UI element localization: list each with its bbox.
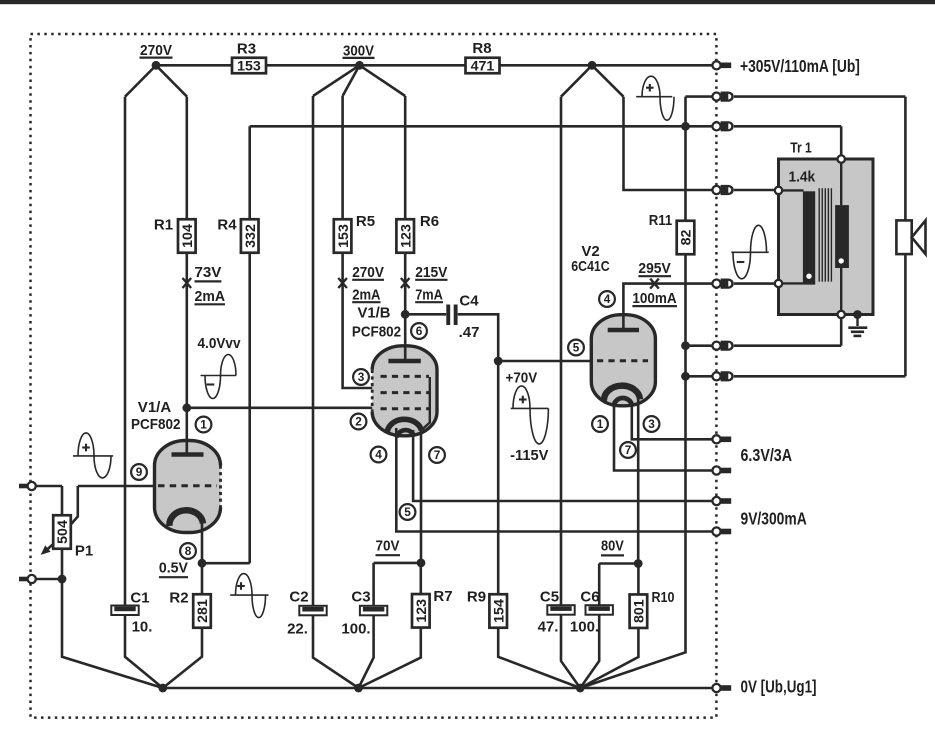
svg-text:2mA: 2mA xyxy=(352,287,380,304)
svg-text:2mA: 2mA xyxy=(195,288,226,305)
svg-text:V1/B: V1/B xyxy=(358,304,391,321)
svg-text:153: 153 xyxy=(336,224,352,248)
svg-text:100.: 100. xyxy=(341,621,370,638)
svg-text:C3: C3 xyxy=(351,589,370,606)
svg-text:10.: 10. xyxy=(132,619,153,636)
svg-text:123: 123 xyxy=(414,599,430,623)
svg-text:7: 7 xyxy=(625,443,632,457)
svg-text:100.: 100. xyxy=(570,619,599,636)
svg-text:7: 7 xyxy=(434,448,441,462)
svg-text:C2: C2 xyxy=(289,589,308,606)
svg-text:300V: 300V xyxy=(343,42,374,59)
svg-text:-115V: -115V xyxy=(510,447,548,464)
svg-text:4: 4 xyxy=(604,292,611,306)
svg-text:C4: C4 xyxy=(459,293,479,310)
svg-text:8: 8 xyxy=(185,544,192,558)
svg-text:Tr 1: Tr 1 xyxy=(790,139,812,156)
svg-text:295V: 295V xyxy=(638,260,670,277)
svg-text:7mA: 7mA xyxy=(415,287,443,304)
svg-text:C1: C1 xyxy=(130,590,149,607)
svg-text:47.: 47. xyxy=(538,619,559,636)
svg-text:PCF802: PCF802 xyxy=(131,416,181,433)
svg-text:154: 154 xyxy=(491,599,507,623)
svg-text:R11: R11 xyxy=(649,212,673,229)
svg-text:332: 332 xyxy=(243,224,259,248)
svg-text:1: 1 xyxy=(597,417,604,431)
svg-text:9V/300mA: 9V/300mA xyxy=(741,509,807,529)
svg-text:270V: 270V xyxy=(140,42,172,59)
svg-text:5: 5 xyxy=(573,341,580,355)
svg-text:82: 82 xyxy=(679,230,695,246)
svg-text:+70V: +70V xyxy=(506,370,538,387)
svg-text:R5: R5 xyxy=(356,213,375,230)
svg-text:6C41C: 6C41C xyxy=(571,258,610,275)
svg-text:1: 1 xyxy=(200,418,207,432)
svg-text:215V: 215V xyxy=(415,264,447,281)
svg-text:R7: R7 xyxy=(433,588,452,605)
svg-text:104: 104 xyxy=(180,224,196,248)
svg-text:4.0Vvv: 4.0Vvv xyxy=(198,335,242,352)
svg-text:70V: 70V xyxy=(376,538,400,555)
svg-text:R6: R6 xyxy=(420,213,439,230)
svg-text:1.4k: 1.4k xyxy=(788,169,815,186)
svg-text:2: 2 xyxy=(355,415,362,429)
svg-text:0.5V: 0.5V xyxy=(159,560,188,577)
svg-text:6: 6 xyxy=(416,324,423,338)
svg-text:123: 123 xyxy=(398,224,414,248)
svg-text:P1: P1 xyxy=(75,543,93,560)
svg-text:R8: R8 xyxy=(472,40,491,57)
svg-text:R9: R9 xyxy=(467,589,486,606)
svg-text:73V: 73V xyxy=(195,264,222,281)
svg-text:C5: C5 xyxy=(540,589,559,606)
svg-text:9: 9 xyxy=(136,465,143,479)
svg-text:R2: R2 xyxy=(169,590,188,607)
svg-text:5: 5 xyxy=(404,505,411,519)
svg-text:0V [Ub,Ug1]: 0V [Ub,Ug1] xyxy=(741,676,817,696)
svg-text:504: 504 xyxy=(55,520,71,544)
svg-text:100mA: 100mA xyxy=(632,290,676,307)
svg-text:R10: R10 xyxy=(652,589,675,606)
svg-text:80V: 80V xyxy=(601,538,624,555)
svg-text:R4: R4 xyxy=(217,217,237,234)
svg-text:270V: 270V xyxy=(352,264,384,281)
svg-text:PCF802: PCF802 xyxy=(352,324,401,341)
svg-text:4: 4 xyxy=(375,448,382,462)
svg-text:153: 153 xyxy=(237,59,261,75)
svg-text:801: 801 xyxy=(632,599,648,623)
svg-text:R3: R3 xyxy=(237,41,256,58)
svg-text:3: 3 xyxy=(648,417,655,431)
svg-text:V1/A: V1/A xyxy=(138,399,172,416)
svg-text:471: 471 xyxy=(471,59,495,75)
svg-text:+305V/110mA [Ub]: +305V/110mA [Ub] xyxy=(740,56,860,76)
svg-text:.47: .47 xyxy=(459,324,480,341)
svg-text:C6: C6 xyxy=(580,589,599,606)
svg-text:22.: 22. xyxy=(287,621,308,638)
svg-text:R1: R1 xyxy=(154,217,173,234)
svg-text:3: 3 xyxy=(358,370,365,384)
svg-text:281: 281 xyxy=(195,599,211,623)
svg-text:6.3V/3A: 6.3V/3A xyxy=(741,445,793,465)
